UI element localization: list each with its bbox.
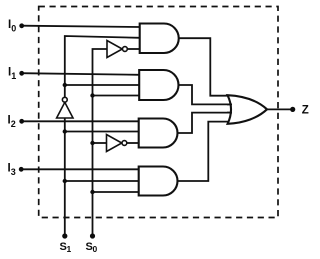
svg-text:3: 3 [11, 167, 16, 177]
svg-text:0: 0 [93, 244, 98, 254]
svg-text:1: 1 [11, 71, 16, 81]
svg-text:0: 0 [11, 24, 16, 34]
svg-text:Z: Z [302, 105, 309, 117]
svg-text:1: 1 [67, 244, 72, 254]
svg-text:2: 2 [11, 119, 16, 129]
